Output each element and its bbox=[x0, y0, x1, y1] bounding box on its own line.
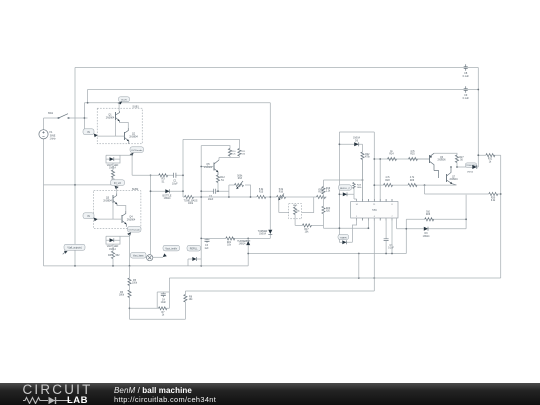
resistor R23 bbox=[353, 183, 363, 195]
node Vout_treble stamp bbox=[163, 245, 180, 257]
node junction x74.5/in-lo bbox=[74, 184, 76, 186]
transistor Q2 bbox=[125, 128, 139, 144]
wire refill to IC pin bbox=[354, 194, 357, 201]
wire IC pin5 up bbox=[379, 159, 381, 199]
svg-text:R31: R31 bbox=[488, 159, 493, 161]
svg-text:556: 556 bbox=[372, 208, 377, 212]
wire LED cluster top bar bbox=[106, 154, 132, 156]
node OUT/anode stamp SUB1 bbox=[130, 147, 144, 156]
wire vertical x182.5 bbox=[182, 139, 184, 197]
capacitor C2 bbox=[208, 189, 216, 201]
wire Q3 emitter to Q4 collector bbox=[117, 206, 126, 212]
svg-text:4.7k: 4.7k bbox=[410, 177, 415, 179]
resistor R30 bbox=[489, 192, 498, 202]
svg-text:620: 620 bbox=[242, 154, 246, 156]
svg-text:4.7k: 4.7k bbox=[385, 177, 390, 179]
capacitor C5 bbox=[384, 239, 395, 254]
capacitor C1 bbox=[172, 173, 178, 186]
resistor R26 bbox=[425, 211, 434, 221]
wire bass diode line bbox=[151, 190, 184, 192]
svg-text:R6: R6 bbox=[120, 292, 124, 294]
node junction bass rail bbox=[200, 238, 202, 240]
svg-text:REFILL_P: REFILL_P bbox=[340, 188, 351, 190]
node TIMER stamp bbox=[338, 235, 349, 240]
svg-text:10uF: 10uF bbox=[172, 183, 178, 186]
svg-text:2.2k: 2.2k bbox=[231, 154, 236, 156]
node junction x373.8/y158.5 bbox=[373, 158, 375, 160]
svg-text:IN_LO: IN_LO bbox=[114, 182, 121, 185]
resistor R31 bbox=[486, 154, 495, 164]
svg-text:V1: V1 bbox=[49, 130, 53, 134]
svg-text:2N3906: 2N3906 bbox=[437, 160, 446, 162]
transistor Q4 bbox=[122, 211, 136, 227]
subcircuit SUB1 dashed box bbox=[97, 108, 142, 144]
wire IC bottom pin4 long down bbox=[373, 218, 375, 291]
wire vertical x150 probe to RC net bbox=[150, 175, 152, 255]
svg-text:C5: C5 bbox=[390, 245, 394, 247]
wire left vertical from rail 1 bbox=[74, 68, 76, 266]
svg-text:R15: R15 bbox=[259, 192, 264, 194]
svg-text:1k: 1k bbox=[162, 315, 165, 317]
svg-text:2N3904: 2N3904 bbox=[129, 136, 138, 139]
wire pot out to tone line bbox=[302, 197, 314, 213]
svg-text:11: 11 bbox=[373, 204, 375, 206]
node junction y179.5/x362 bbox=[362, 179, 364, 181]
wire y307.8 line bbox=[130, 307, 170, 309]
resistor R5 on x129 bbox=[128, 278, 138, 286]
svg-text:5.6k: 5.6k bbox=[279, 189, 284, 191]
svg-text:10uF: 10uF bbox=[208, 198, 214, 201]
svg-text:10k: 10k bbox=[305, 232, 310, 234]
resistor R17 bbox=[302, 224, 311, 234]
diode D5 up on x247.7 bbox=[237, 238, 250, 266]
node junction base/x200.7 bbox=[200, 166, 202, 168]
resistor R22 bbox=[361, 144, 371, 199]
resistor R27 bbox=[455, 155, 464, 167]
svg-text:100k: 100k bbox=[188, 203, 194, 205]
wire base line to Q6 bbox=[418, 158, 430, 160]
svg-text:50k: 50k bbox=[296, 211, 300, 213]
transistor Q3 bbox=[103, 194, 117, 206]
resistor R10 bbox=[228, 149, 236, 157]
node REFILL stamp with diode bbox=[187, 245, 201, 266]
svg-text:OUT/anode: OUT/anode bbox=[131, 150, 143, 152]
wire y154.7 line right bbox=[478, 155, 500, 194]
svg-text:470k: 470k bbox=[365, 157, 371, 159]
svg-text:Vout_treble: Vout_treble bbox=[165, 248, 177, 251]
svg-text:R21: R21 bbox=[227, 242, 232, 244]
node junction x150/out wire bbox=[150, 174, 152, 176]
svg-text:14: 14 bbox=[356, 204, 358, 206]
wire long vertical x200.7 bbox=[200, 146, 202, 266]
svg-text:SUB2: SUB2 bbox=[132, 188, 139, 191]
node junctions rails bbox=[358, 277, 360, 279]
wire rail y290.5 bbox=[185, 290, 374, 292]
svg-text:1N914: 1N914 bbox=[467, 172, 474, 174]
svg-text:51: 51 bbox=[162, 181, 165, 184]
svg-text:1uF: 1uF bbox=[205, 248, 210, 250]
svg-text:R20: R20 bbox=[326, 208, 331, 210]
wire bass rail y237.9 bbox=[201, 237, 270, 239]
wire IC bottom pin3 to bass feed bbox=[367, 218, 369, 228]
resistor R13 pot bbox=[235, 176, 244, 190]
transistor Q6 PNP bbox=[430, 153, 447, 178]
node Vout_bass stamp with probe bbox=[131, 253, 164, 261]
svg-text:6.2k: 6.2k bbox=[491, 200, 496, 202]
svg-text:R27: R27 bbox=[459, 157, 464, 159]
svg-text:1N914: 1N914 bbox=[239, 244, 246, 246]
wire SUB2 base line bbox=[94, 203, 122, 219]
wire tone line bbox=[183, 196, 327, 198]
svg-text:56: 56 bbox=[460, 160, 463, 162]
svg-text:C3: C3 bbox=[205, 245, 209, 247]
svg-text:100k: 100k bbox=[357, 187, 363, 189]
svg-text:1k: 1k bbox=[489, 161, 492, 163]
diode D1 LED bbox=[107, 157, 119, 170]
svg-text:SUB1: SUB1 bbox=[132, 106, 139, 109]
node junctions on bottom rail bbox=[74, 265, 76, 267]
svg-text:1N914: 1N914 bbox=[259, 234, 266, 236]
wire IN_HI line bbox=[84, 102, 270, 104]
wire IC bottom pin1 route to timer diode bbox=[347, 218, 357, 242]
wire x129 vertical chain bbox=[129, 266, 131, 319]
wire discharge net bbox=[397, 195, 467, 254]
svg-text:4.7k: 4.7k bbox=[410, 151, 415, 153]
diode D4 on x269.8 drop bbox=[258, 230, 273, 236]
node junctions treble rail bbox=[385, 253, 387, 255]
resistor R24 on y158.5 bbox=[388, 151, 397, 160]
diode D2 LED bbox=[107, 238, 119, 251]
svg-text:TIMER: TIMER bbox=[340, 237, 347, 239]
capacitor C4 bbox=[161, 292, 167, 304]
svg-text:10k: 10k bbox=[227, 245, 232, 247]
node junctions tone line bbox=[200, 196, 202, 198]
wire IC bottom pin6 to cap bbox=[385, 218, 387, 239]
node junction x338.9/y227.7 bbox=[339, 227, 341, 229]
node junction x87/in-hi bbox=[87, 102, 89, 104]
svg-text:R13: R13 bbox=[238, 178, 243, 180]
svg-text:R25: R25 bbox=[410, 154, 415, 156]
svg-text:500k: 500k bbox=[237, 176, 243, 178]
node IN stamp SUB1 bbox=[83, 129, 98, 137]
svg-text:R17: R17 bbox=[304, 229, 309, 231]
resistor R11 bbox=[238, 149, 246, 157]
svg-text:10uF: 10uF bbox=[161, 302, 167, 304]
svg-text:2N3904: 2N3904 bbox=[449, 179, 458, 181]
svg-text:REFILL: REFILL bbox=[190, 249, 199, 251]
wire IN_LO drop into SUB2 bbox=[116, 188, 118, 194]
svg-text:TURNER: TURNER bbox=[258, 231, 268, 233]
resistor R3 bbox=[159, 174, 168, 184]
svg-text:TURNER: TURNER bbox=[237, 241, 247, 243]
wire pot branch bbox=[229, 185, 251, 197]
wire SUB1 base line bbox=[97, 120, 124, 136]
svg-text:Vout_bass: Vout_bass bbox=[133, 255, 145, 258]
node junction x129/y307.8 bbox=[129, 307, 131, 309]
resistor R25 on y158.5 bbox=[409, 151, 418, 160]
wire main bottom rail bbox=[44, 265, 249, 267]
wire x358.3 down bbox=[358, 254, 360, 279]
svg-text:1N914: 1N914 bbox=[164, 198, 171, 200]
svg-text:100k: 100k bbox=[132, 283, 138, 285]
svg-text:180k: 180k bbox=[119, 295, 125, 297]
svg-text:R24: R24 bbox=[389, 154, 394, 156]
node junctions C2 line bbox=[200, 190, 202, 192]
svg-text:R30: R30 bbox=[491, 198, 496, 200]
svg-text:R4: R4 bbox=[108, 254, 112, 257]
node junctions right bbox=[477, 154, 479, 156]
wire emitter rail y184.6 bbox=[374, 184, 456, 186]
wire switch line bbox=[44, 117, 88, 119]
wire bass cap feed bbox=[295, 225, 368, 228]
wire y193.5 line bbox=[425, 185, 501, 278]
capacitor C9 on rail 2 bbox=[463, 86, 470, 100]
IC U1 556 box bbox=[351, 199, 398, 221]
diode D3 bbox=[163, 189, 172, 200]
wire treble rail y253 start bbox=[248, 253, 406, 255]
wire treble chain verticals bbox=[323, 180, 325, 206]
svg-text:Q6: Q6 bbox=[440, 157, 444, 159]
node junctions x182.5 bbox=[182, 174, 184, 176]
wire RC box bbox=[157, 278, 169, 308]
node IN_LO stamp bbox=[111, 180, 125, 189]
transistor Q1 bbox=[106, 111, 120, 123]
resistor R19 above tone line bbox=[322, 187, 331, 195]
node junctions discharge bbox=[405, 228, 407, 230]
wire collector feed A bbox=[183, 139, 239, 148]
resistor R20 below tone line bbox=[322, 206, 331, 225]
wire long vertical x269.8 bbox=[269, 103, 271, 239]
svg-text:2N3904: 2N3904 bbox=[127, 219, 136, 222]
svg-text:5.6k: 5.6k bbox=[259, 189, 264, 191]
wire collector feed B bbox=[201, 146, 230, 149]
node TRIGGER stamp bbox=[466, 163, 477, 174]
svg-text:Q7: Q7 bbox=[452, 177, 456, 179]
svg-text:4: 4 bbox=[374, 216, 375, 218]
wire Q1 emitter to Q2 collector bbox=[120, 123, 129, 129]
potentiometer RV box dashed bbox=[289, 204, 302, 219]
diode D7 refill bbox=[339, 192, 355, 196]
svg-text:V(all_outputs): V(all_outputs) bbox=[67, 247, 81, 250]
wire IN_HI drop into SUB1 bbox=[118, 103, 120, 111]
voltage source V1 bbox=[39, 118, 56, 266]
wire top block verticals bbox=[339, 132, 374, 242]
svg-text:2N3904: 2N3904 bbox=[103, 200, 112, 203]
resistor R8 bbox=[184, 291, 193, 319]
svg-text:R28: R28 bbox=[385, 180, 390, 182]
wire LED parallel box bbox=[106, 155, 120, 163]
subcircuit SUB2 dashed box bbox=[94, 191, 141, 229]
svg-text:1: 1 bbox=[356, 216, 357, 218]
node junction treble rail bbox=[247, 253, 249, 255]
svg-text:SW1: SW1 bbox=[48, 112, 54, 115]
node V(all_outputs) stamp bbox=[63, 244, 85, 254]
wire IC pin4 long vertical continues above bbox=[374, 158, 429, 160]
svg-text:7: 7 bbox=[392, 216, 393, 218]
resistor R21 on bass rail bbox=[226, 237, 235, 247]
resistor R14 tone bass bbox=[184, 195, 198, 205]
transistor Q7 bbox=[447, 167, 459, 185]
wire IN_LO line from source leg bbox=[44, 184, 116, 186]
svg-text:1 kHz: 1 kHz bbox=[49, 137, 56, 140]
wire IC pin2 up chain bbox=[362, 160, 364, 200]
resistor R18 on tone line bbox=[317, 189, 326, 198]
wire treble pot line into R22 bbox=[324, 179, 363, 181]
node OUT/anode stamp SUB2 bbox=[127, 227, 141, 236]
wire pot wiper drop bbox=[279, 200, 289, 212]
switch SW1 bbox=[48, 112, 69, 119]
wire SUB2 OUT vertical bbox=[129, 234, 131, 266]
wire LED parallel box 2 bbox=[106, 236, 120, 244]
node IN stamp SUB2 bbox=[83, 213, 98, 221]
resistor R2 bbox=[111, 163, 116, 185]
wire y318.8 line bbox=[130, 318, 186, 320]
svg-text:BOTTLE: BOTTLE bbox=[163, 195, 172, 197]
resistor R12 bbox=[216, 175, 225, 191]
potentiometer RV1 bbox=[293, 205, 300, 225]
resistor R28 bbox=[384, 177, 393, 187]
svg-text:10k: 10k bbox=[189, 299, 194, 301]
svg-text:TONE_BASS: TONE_BASS bbox=[184, 199, 198, 202]
node junction switch/x87 bbox=[84, 117, 86, 119]
svg-text:R5: R5 bbox=[133, 280, 137, 282]
diode D6 in top block bbox=[339, 138, 363, 147]
wire right vertical to trigger bbox=[477, 68, 479, 168]
transistor Q5 bbox=[204, 160, 219, 175]
svg-text:0.1uF: 0.1uF bbox=[463, 75, 470, 78]
diode D10 trigger bbox=[472, 165, 477, 169]
resistor R7 in RC box bbox=[159, 307, 167, 317]
svg-text:1N914: 1N914 bbox=[353, 138, 360, 140]
wire trigger diode line bbox=[457, 166, 478, 168]
svg-text:620: 620 bbox=[326, 211, 331, 213]
resistor R29 bbox=[408, 177, 417, 187]
node junction y184.6 bbox=[373, 184, 375, 186]
svg-text:0.1uF: 0.1uF bbox=[463, 97, 470, 100]
svg-text:OUT/anode: OUT/anode bbox=[129, 230, 141, 232]
capacitor C8 on rail 1 bbox=[463, 64, 470, 78]
svg-text:2.2k: 2.2k bbox=[326, 191, 331, 193]
svg-text:R29: R29 bbox=[410, 180, 415, 182]
wire OUT vertical bbox=[131, 154, 133, 175]
resistor R15 bbox=[257, 189, 266, 198]
svg-text:R7: R7 bbox=[162, 312, 166, 314]
svg-text:R26: R26 bbox=[426, 214, 431, 216]
node junction x150/diode line bbox=[150, 190, 152, 192]
wire R3/C1 coupling line bbox=[132, 174, 183, 176]
resistor R16 pot bbox=[277, 189, 286, 200]
wire collector node bar bbox=[219, 156, 239, 160]
svg-text:562: 562 bbox=[115, 254, 120, 257]
svg-text:0.1uF: 0.1uF bbox=[388, 248, 394, 250]
node IN_HI stamp bbox=[118, 97, 130, 105]
wire rail y277.5 bbox=[169, 277, 500, 279]
diode D8 timer bbox=[339, 240, 346, 244]
wire vertical x87 from rail2 to IN stamp bbox=[84, 90, 87, 130]
node REFILL_P stamp bbox=[339, 185, 352, 190]
diode D9 bbox=[423, 227, 430, 238]
wire C2 line bbox=[201, 190, 229, 192]
svg-text:1N914: 1N914 bbox=[423, 236, 430, 238]
svg-text:RV1: RV1 bbox=[293, 205, 298, 207]
svg-text:D6: D6 bbox=[355, 140, 359, 142]
node junction rail2/right vertical bbox=[477, 89, 479, 91]
wire top rail 2 bbox=[88, 89, 479, 91]
svg-text:IN_HI: IN_HI bbox=[121, 100, 127, 102]
svg-text:C4: C4 bbox=[162, 299, 166, 301]
svg-text:D9: D9 bbox=[425, 233, 429, 235]
svg-text:8: 8 bbox=[392, 204, 393, 206]
wire top rail 1 bbox=[75, 67, 478, 69]
wire IC bottom pin7 down bbox=[391, 218, 393, 254]
svg-text:R8: R8 bbox=[189, 297, 193, 299]
wire Q5 base bbox=[201, 166, 214, 168]
resistor R6 on x129 bbox=[119, 290, 131, 298]
svg-text:IN: IN bbox=[87, 215, 90, 218]
resistor R4 bbox=[108, 244, 120, 266]
svg-text:IN: IN bbox=[87, 131, 90, 134]
svg-text:R16: R16 bbox=[279, 192, 284, 194]
svg-text:2N3904: 2N3904 bbox=[106, 117, 115, 120]
wire Q6 emitter rail bbox=[434, 153, 457, 155]
svg-text:R19: R19 bbox=[326, 188, 331, 190]
wire LED cluster 2 top bar bbox=[106, 235, 130, 237]
capacitor C3 hanging bbox=[205, 238, 210, 249]
svg-text:R22: R22 bbox=[365, 154, 370, 156]
svg-text:51: 51 bbox=[221, 179, 224, 182]
